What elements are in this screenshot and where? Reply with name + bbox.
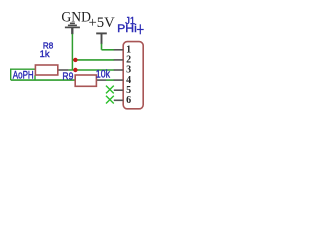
- power symbol GND: [65, 23, 80, 34]
- wire +5V to pin1: [102, 49, 115, 51]
- svg-text:R9: R9: [62, 72, 73, 83]
- wire R9 to pin4: [106, 79, 114, 81]
- junction dot at GND/pin3: [73, 68, 77, 72]
- svg-text:10k: 10k: [96, 69, 111, 81]
- resistor R8 right pin: [58, 69, 69, 71]
- resistor R9 body: [75, 75, 96, 86]
- wire AoPH to R9: [11, 79, 75, 81]
- connector J1 body: [123, 42, 143, 109]
- junction dot at GND/pin2: [73, 58, 77, 62]
- svg-text:AoPH: AoPH: [13, 69, 34, 81]
- no-connect X pin 5: [106, 86, 114, 94]
- svg-text:PHi: PHi: [117, 23, 137, 35]
- power symbol +5V: [96, 33, 107, 44]
- pin 2: [114, 59, 123, 61]
- wire GND to pin2: [72, 59, 114, 61]
- pin 3: [114, 69, 123, 71]
- svg-text:1k: 1k: [40, 49, 51, 59]
- resistor R8 body: [35, 65, 57, 75]
- svg-text:GND: GND: [61, 10, 91, 26]
- wire +5V vertical: [101, 44, 103, 50]
- pin 5: [114, 89, 123, 91]
- resistor R9 right pin: [97, 79, 106, 81]
- wire GND vertical: [71, 34, 73, 70]
- pin 1: [114, 49, 123, 51]
- no-connect X pin 6: [106, 96, 114, 104]
- wire R8 to pin3: [69, 69, 115, 71]
- global label AoPH box: [10, 69, 35, 80]
- svg-text:+5V: +5V: [89, 15, 116, 31]
- svg-text:6: 6: [126, 95, 131, 106]
- pin 6: [114, 99, 123, 101]
- connector J1 value dagger glyph: [137, 24, 144, 34]
- pin 4: [114, 79, 123, 81]
